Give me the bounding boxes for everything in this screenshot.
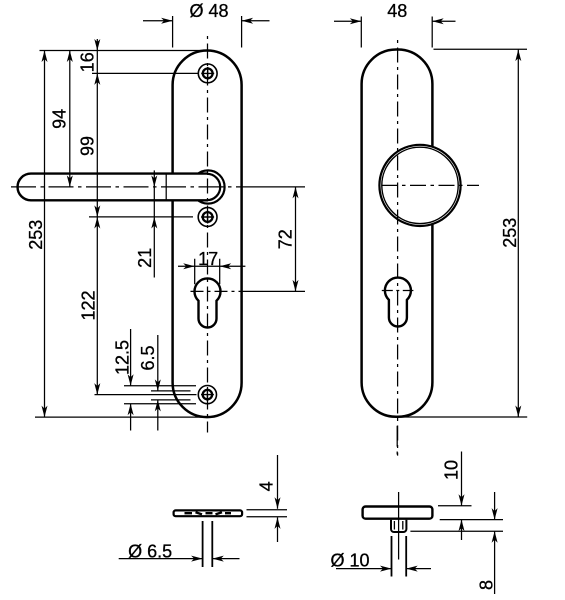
dimension 8 arrows xyxy=(492,508,498,519)
dimension Ø48 line xyxy=(143,20,270,22)
dimension 17 arrows xyxy=(183,263,195,269)
dimension 94 arrows xyxy=(67,51,73,63)
dimension Ø6.5 line segments xyxy=(119,558,240,560)
right backplate outline xyxy=(362,50,433,417)
svg-text:12.5: 12.5 xyxy=(112,340,132,375)
handle horizontal axis centerline xyxy=(11,186,247,188)
lever handle inner neck cap arc xyxy=(207,174,220,200)
svg-text:122: 122 xyxy=(78,290,98,320)
spindle projection lines (Ø10) xyxy=(392,536,407,577)
svg-text:Ø 10: Ø 10 xyxy=(330,551,369,571)
top screw S1 outer circle xyxy=(198,64,217,83)
middle screw S2 outer circle xyxy=(198,208,217,227)
extension line screw S3 hole top xyxy=(151,390,191,392)
svg-text:8: 8 xyxy=(476,580,496,590)
svg-text:21: 21 xyxy=(135,248,155,268)
dimension 12.5 arrows xyxy=(128,374,134,386)
euro profile cylinder keyhole left : circle xyxy=(195,278,221,327)
extension line bar bottom xyxy=(247,516,288,518)
bottom screw S3 inner circle xyxy=(203,390,212,399)
extension line handle axis right xyxy=(247,186,305,188)
knob horizontal axis centerline xyxy=(382,184,480,186)
fixing hole projection lines (Ø6.5) xyxy=(203,521,213,567)
dimension Ø48 arrows xyxy=(161,18,173,24)
left plate vertical centerline xyxy=(207,36,209,433)
extension line bar top xyxy=(247,509,288,511)
dimension 21 arrows xyxy=(151,175,157,187)
knob outer circle (white fill masks plate edge) xyxy=(379,145,460,226)
extension line cap bottom right xyxy=(440,519,503,521)
extension line screw S1 center xyxy=(92,72,198,74)
dimension 6.5 line segments xyxy=(157,335,159,431)
dimension Ø6.5 arrows xyxy=(191,556,203,562)
svg-text:99: 99 xyxy=(78,136,98,156)
top screw S1 cross slot xyxy=(201,67,214,80)
keyhole left axis centerline xyxy=(191,290,249,292)
spindle axis line xyxy=(398,492,400,560)
extension line plate bottom right xyxy=(400,416,527,418)
dimension 48 arrows xyxy=(350,18,362,24)
dimension 4 arrows xyxy=(275,497,281,509)
svg-text:94: 94 xyxy=(50,109,70,129)
extension line screw S3 center xyxy=(95,394,197,396)
dimension 17 line xyxy=(178,265,245,267)
svg-text:48: 48 xyxy=(387,1,407,21)
middle screw S2 inner circle xyxy=(203,212,213,222)
spindle hub inner lines xyxy=(394,521,402,530)
extension line cap top right xyxy=(438,505,472,507)
flat plate side view bar xyxy=(174,510,243,516)
dimension 122 bottom arrow xyxy=(94,383,100,395)
dimension 8 line segments xyxy=(494,492,496,594)
svg-text:4: 4 xyxy=(257,481,277,491)
dimension 94 line xyxy=(69,51,71,187)
lever handle grip junction line xyxy=(165,173,167,201)
dimension 48 line xyxy=(334,20,456,22)
dimension 16 arrows xyxy=(94,39,100,51)
spindle axis dash above xyxy=(396,426,398,455)
extension line screw S3 head bottom xyxy=(124,403,196,405)
dimension 122 top arrow xyxy=(94,217,100,229)
dimension 21 line segments xyxy=(153,170,155,277)
svg-text:Ø 48: Ø 48 xyxy=(189,1,228,21)
dimension 253 left arrows xyxy=(42,51,48,63)
dimension 72 arrows xyxy=(293,187,299,199)
svg-text:6.5: 6.5 xyxy=(138,345,158,370)
dimension 6.5 arrows xyxy=(155,379,161,391)
extension line screw S2 center xyxy=(89,216,193,218)
knob inner circle xyxy=(382,147,458,223)
dimension 10 line segments xyxy=(461,452,463,541)
dimension 253 left line xyxy=(44,51,46,418)
bottom screw S3 outer circle xyxy=(198,386,216,404)
extension line keyhole axis right xyxy=(248,290,305,292)
dimension 48 witness lines xyxy=(361,17,432,48)
dimension chain line 16/99/122 xyxy=(96,39,98,395)
dimension 99 bottom arrow xyxy=(94,205,100,217)
euro profile cylinder keyhole right : circle xyxy=(385,278,411,327)
extension line plate top left xyxy=(40,50,207,52)
middle screw S2 cross slot xyxy=(201,211,214,224)
svg-text:72: 72 xyxy=(275,229,295,249)
svg-text:253: 253 xyxy=(26,220,46,250)
svg-text:253: 253 xyxy=(500,218,520,248)
top screw S1 inner circle xyxy=(203,69,213,79)
right plate vertical centerline xyxy=(397,40,399,456)
left backplate outline xyxy=(173,51,242,418)
dimension 10 arrows xyxy=(459,494,465,506)
dimension 72 line xyxy=(295,187,297,292)
lever handle tube (white fill masks plate edge and rose) xyxy=(18,174,208,201)
svg-text:10: 10 xyxy=(441,460,461,480)
dimension Ø10 arrows xyxy=(380,566,392,572)
dimension 253 right arrows xyxy=(515,50,521,62)
svg-text:17: 17 xyxy=(198,249,218,269)
handle neck rose circle xyxy=(191,170,224,203)
dimension Ø48 witness lines xyxy=(173,16,242,48)
dimension Ø10 line segments xyxy=(336,568,431,570)
dimension 12.5 line segments xyxy=(130,329,132,431)
spindle hub block xyxy=(391,520,406,532)
extension line screw S3 hole bottom xyxy=(151,399,191,401)
svg-text:Ø 6.5: Ø 6.5 xyxy=(128,541,172,561)
bottom screw S3 cross slot xyxy=(201,388,214,401)
dimension 253 right line xyxy=(517,50,519,417)
extension line plate top right xyxy=(434,48,528,50)
dimension 4 line segments xyxy=(277,455,279,542)
flat plate inner hole marks xyxy=(185,512,232,514)
extension line hub bottom right xyxy=(410,530,503,532)
extension line plate bottom left xyxy=(35,416,207,418)
svg-text:16: 16 xyxy=(77,52,97,72)
knob plate cap side view xyxy=(363,507,433,519)
dimension 17 witness lines xyxy=(195,259,220,285)
keyhole right axis centerline xyxy=(382,290,414,292)
extension line screw S3 head top xyxy=(124,385,196,387)
